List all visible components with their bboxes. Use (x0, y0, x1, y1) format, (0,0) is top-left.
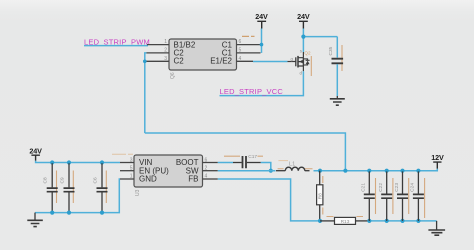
svg-text:R8: R8 (318, 193, 324, 199)
svg-text:2: 2 (164, 48, 167, 54)
ground (input) (27, 213, 43, 227)
value label L1 (278, 168, 313, 170)
junction pin6 (260, 43, 264, 47)
op-amp U3 (buck regulator) (134, 155, 203, 196)
svg-text:LED_STRIP_VCC: LED_STRIP_VCC (220, 87, 284, 96)
svg-text:C35: C35 (328, 46, 334, 55)
inductor L1 (276, 161, 310, 170)
wire 24V input rail (36, 161, 120, 163)
wire output rail 12V (314, 169, 438, 171)
net label LED_STRIP_VCC (220, 87, 284, 96)
svg-text:1: 1 (164, 39, 167, 45)
value label C24 (424, 178, 426, 218)
pin 6 U3 BOOT (203, 157, 218, 163)
transistor Q6 (dual, B1/B2 C2 C2 / C1 C1 E1/E2) (169, 39, 237, 79)
value label Q2 (310, 56, 312, 76)
value label R13 (327, 216, 364, 218)
pin 1 U3 GND (120, 174, 134, 180)
power flag 12V (431, 153, 444, 169)
svg-text:5: 5 (239, 48, 242, 54)
svg-text:24V: 24V (29, 146, 42, 155)
capacitor C17 (233, 154, 261, 168)
junction C9 bottom (67, 211, 71, 215)
junction C8 bottom (50, 211, 54, 215)
wire C2 net to output rail (145, 133, 346, 171)
svg-text:12V: 12V (431, 153, 444, 162)
junction C21 bottom (367, 219, 371, 223)
value label U3 (112, 153, 133, 155)
pin 2 U3 SW (203, 165, 218, 171)
capacitor C35 (328, 37, 343, 96)
value label C35 (341, 45, 343, 71)
pin 6 Q6 (237, 39, 261, 45)
value label R8 (322, 176, 324, 215)
svg-text:3: 3 (164, 56, 167, 62)
junction 24V/C35 (301, 35, 305, 39)
junction C17/SW (269, 169, 273, 173)
pin 1 Q6 (147, 39, 169, 45)
pin 5 U3 EN (120, 165, 134, 171)
junction C9 top (67, 160, 71, 164)
value label C9 (72, 171, 74, 204)
svg-text:C2: C2 (174, 57, 185, 66)
wire FB (218, 179, 320, 221)
junction C6 bottom (100, 211, 104, 215)
junction C24 top (416, 169, 420, 173)
wire C17 to SW (261, 163, 271, 171)
wire 24V to Q6 pins 6,5 (261, 29, 263, 53)
svg-text:Q6: Q6 (170, 72, 176, 79)
value label Q6 (242, 35, 255, 37)
junction C6 top (100, 160, 104, 164)
capacitor C24 (410, 171, 424, 221)
junction C21 top (367, 169, 371, 173)
pin 4 U3 FB (203, 174, 218, 180)
value label C8 (56, 171, 58, 204)
svg-text:g: g (291, 56, 294, 61)
svg-text:C23: C23 (394, 183, 400, 192)
capacitor C8 (43, 163, 58, 212)
wire Q6 pins 2,3 tie (145, 53, 147, 133)
svg-text:U3: U3 (135, 189, 141, 196)
svg-text:R13: R13 (341, 219, 350, 225)
svg-text:C21: C21 (361, 183, 367, 192)
capacitor C23 (394, 171, 408, 221)
svg-text:24V: 24V (255, 12, 268, 21)
junction C22 bottom (385, 219, 389, 223)
wire ground rail bottom right (369, 220, 436, 222)
value label C17 (224, 155, 263, 157)
svg-text:6: 6 (239, 39, 242, 45)
value label C6 (105, 171, 107, 204)
pin 3 Q6 (147, 56, 170, 62)
ground (C35) (330, 96, 345, 105)
svg-text:E1/E2: E1/E2 (210, 57, 232, 66)
ground (output) (428, 221, 445, 235)
power flag 24V (bottom left) (29, 146, 42, 160)
junction C23 bottom (400, 219, 404, 223)
svg-text:L1: L1 (289, 161, 295, 167)
pin 2 Q6 (147, 48, 170, 54)
svg-text:2: 2 (205, 165, 208, 171)
svg-text:GND: GND (139, 174, 157, 183)
svg-text:C6: C6 (92, 177, 98, 183)
capacitor C6 (92, 163, 107, 212)
junction C23 top (400, 169, 404, 173)
wire BOOT to C17 (218, 162, 233, 164)
junction C24 bottom (416, 219, 420, 223)
value label C22 (392, 178, 394, 214)
junction C22 top (385, 169, 389, 173)
junction C8 top (50, 160, 54, 164)
svg-text:C22: C22 (378, 183, 384, 192)
capacitor C9 (59, 163, 74, 212)
junction pins2-3 (143, 60, 147, 64)
power flag 24V (top left) (255, 12, 268, 29)
svg-text:FB: FB (188, 174, 198, 183)
pin 4 Q6 (237, 56, 254, 62)
junction C2-net (343, 169, 347, 173)
junction FB/R8/R13 (318, 219, 322, 223)
svg-text:5: 5 (130, 165, 133, 171)
svg-text:Q2: Q2 (304, 50, 311, 55)
pin 5 Q6 (237, 48, 261, 54)
transistor Q2 (P-MOSFET) (288, 49, 311, 76)
wire 24V to Q2 source and C35 (303, 29, 337, 53)
capacitor C22 (378, 171, 392, 221)
svg-text:3: 3 (130, 157, 133, 163)
svg-text:6: 6 (205, 157, 208, 163)
svg-text:C17: C17 (248, 154, 257, 160)
power flag 24V (top right) (297, 12, 310, 29)
net label LED_STRIP_PWM (84, 37, 150, 46)
wire SW (218, 170, 276, 172)
svg-text:C8: C8 (43, 177, 49, 183)
capacitor C21 (361, 171, 375, 221)
value label C21 (375, 178, 377, 214)
value label C23 (408, 178, 410, 214)
resistor R13 (320, 217, 369, 225)
svg-text:4: 4 (205, 174, 208, 180)
svg-text:C24: C24 (410, 183, 416, 192)
junction R8 top (318, 169, 322, 173)
wire Q6 pin4 to Q2 gate (253, 61, 288, 63)
wire Q2 drain to LED_STRIP_VCC (220, 71, 304, 95)
svg-text:1: 1 (130, 174, 133, 180)
resistor R8 (317, 171, 324, 221)
svg-text:4: 4 (239, 56, 242, 62)
svg-text:24V: 24V (297, 12, 310, 21)
svg-text:C9: C9 (59, 177, 65, 183)
wire LED_STRIP_PWM to Q6 pin1 (84, 45, 148, 47)
svg-text:s: s (300, 49, 303, 54)
svg-text:d: d (300, 71, 303, 76)
wire ground rail bottom left (35, 179, 120, 213)
pin 3 U3 VIN (120, 157, 134, 163)
